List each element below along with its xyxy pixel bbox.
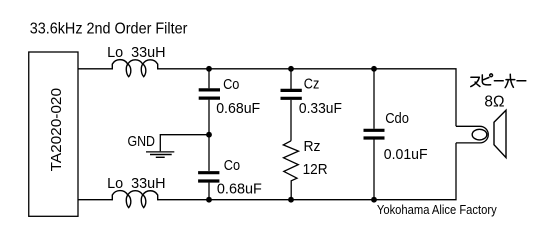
inductor L2 Lo 33uH (bottom) — [107, 175, 166, 208]
speaker SP1 voice coil — [472, 129, 487, 140]
speaker SP1 terminals — [456, 126, 488, 143]
IC U1 TA2020-020 — [29, 52, 78, 216]
svg-text:Yokohama Alice Factory: Yokohama Alice Factory — [377, 202, 497, 217]
svg-text:Rz: Rz — [304, 138, 321, 155]
label Yokohama Alice Factory — [377, 202, 497, 217]
wire box to L1 — [78, 68, 112, 70]
capacitor C1 Co 0.68uF (top) — [199, 69, 261, 171]
svg-text:12R: 12R — [303, 161, 328, 178]
node G gnd junction — [206, 132, 212, 138]
svg-text:Cz: Cz — [304, 76, 320, 93]
svg-text:Lo 33uH: Lo 33uH — [107, 44, 166, 61]
svg-text:Lo 33uH: Lo 33uH — [107, 175, 166, 192]
svg-text:Co: Co — [223, 76, 239, 93]
svg-text:Co: Co — [224, 157, 240, 174]
node D bottom Co — [206, 197, 212, 203]
svg-text:0.01uF: 0.01uF — [384, 146, 428, 163]
svg-text:GND: GND — [128, 133, 156, 150]
svg-text:33.6kHz 2nd Order Filter: 33.6kHz 2nd Order Filter — [30, 21, 188, 38]
node A top Co — [206, 66, 212, 72]
svg-text:0.33uF: 0.33uF — [299, 100, 342, 117]
capacitor C3 Cz 0.33uF — [281, 69, 342, 141]
node E bottom Rz — [288, 197, 294, 203]
ground GND — [128, 133, 210, 157]
wire box to L2 — [78, 199, 112, 201]
svg-text:Cdo: Cdo — [385, 110, 409, 127]
wire L1 to speaker (top rail) — [158, 69, 456, 127]
title 33.6kHz 2nd Order Filter — [30, 21, 188, 38]
speaker SP1 cone — [494, 110, 506, 157]
svg-text:0.68uF: 0.68uF — [216, 100, 260, 117]
capacitor C4 Cdo 0.01uF — [364, 69, 428, 200]
node B top Cz — [288, 66, 294, 72]
node F bottom Cdo — [371, 197, 377, 203]
svg-text:8Ω: 8Ω — [484, 94, 504, 111]
wire L2 to speaker (bottom rail) — [158, 143, 456, 200]
resistor R1 Rz 12R — [283, 138, 327, 200]
capacitor C2 Co 0.68uF (bottom) — [198, 157, 262, 200]
label speaker katakana — [471, 74, 526, 88]
inductor L1 Lo 33uH (top) — [107, 44, 166, 77]
svg-text:TA2020-020: TA2020-020 — [48, 88, 65, 171]
svg-text:0.68uF: 0.68uF — [217, 181, 262, 198]
node C top Cdo — [371, 66, 377, 72]
label 8 ohm — [484, 94, 504, 111]
